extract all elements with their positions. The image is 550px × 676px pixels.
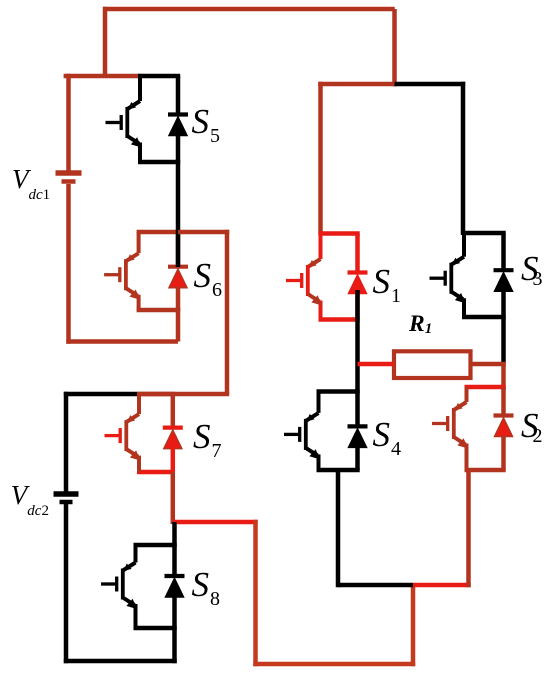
label S7 <box>193 419 222 463</box>
label S5 <box>192 104 221 148</box>
wire Vdc1 positive lead x=68.5 <box>66 74 71 171</box>
wire S8 collector link x=174.5 <box>172 522 177 546</box>
wire S7 diode leg to midpoint x=172.8 <box>171 472 176 524</box>
wire R1 right lead y=364 <box>471 362 506 367</box>
wire R1 left lead y=364 <box>358 362 395 367</box>
label Vdc2 <box>11 482 49 520</box>
wire top rail (net P) y=9 <box>103 7 395 12</box>
wire bridge1 midpoint drop x=227 <box>225 230 230 394</box>
wire Vdc1 to S6 bottom y=341.5 <box>66 339 178 344</box>
wire Vdc2 return y=661 <box>64 659 177 664</box>
IGBT switch S3: transistor + antiparallel diode <box>430 233 514 317</box>
wire S2 emitter drop x=468.5 <box>466 470 471 587</box>
battery Vdc2 <box>54 494 79 502</box>
wire S6 leg to Vdc1 return x=178 <box>176 308 181 342</box>
wire top rail right drop x=394.5 <box>392 9 397 86</box>
wire Vdc1 negative lead x=68.5 <box>66 184 71 344</box>
wire S3 collector drop x=463 <box>461 82 466 235</box>
wire Vdc2 top lead x=66 <box>64 392 69 492</box>
label S2 <box>521 408 543 448</box>
wire S6 top wire extension y=232 <box>178 230 229 235</box>
wire bridge2 midpoint y=522 <box>173 520 258 525</box>
wire S3 emitter leg x=503.5 <box>501 317 506 364</box>
label Vdc1 <box>12 166 50 204</box>
wire left drop of top rail x=105 <box>103 7 108 78</box>
wire S1 collector drop x=320.5 <box>318 82 323 236</box>
IGBT switch S8: transistor + antiparallel diode <box>101 545 185 628</box>
label S3 <box>521 251 543 291</box>
battery Vdc1 <box>56 173 82 182</box>
wire bottom bus riser x=413 <box>411 585 416 666</box>
wire bottom bus y=664 <box>253 662 415 667</box>
wire S7 top rail y=394 (red part) <box>137 392 229 397</box>
wire R1 junction to S2 x=503.5 <box>501 362 506 390</box>
IGBT switch S2: transistor + antiparallel diode <box>432 387 514 470</box>
label S4 <box>373 417 402 461</box>
label S6 <box>194 258 223 302</box>
wire H-bridge bottom left y=585 (black) <box>338 583 413 588</box>
wire H-bridge top right y=84 (black) <box>395 82 466 87</box>
wire S5 top feed y=76 <box>64 74 141 79</box>
IGBT switch S1: transistor + antiparallel diode <box>286 234 368 320</box>
wire S5 emitter to S6 diode x=178 <box>176 162 181 267</box>
wire S1/S4 midpoint leg x=357.5 <box>355 290 360 394</box>
wire midpoint to bottom bus x=255.5 <box>253 520 258 666</box>
IGBT switch S7: transistor + antiparallel diode <box>105 394 183 472</box>
label R1 <box>409 313 432 338</box>
resistor R1 (load) <box>394 351 471 378</box>
label S1 <box>373 264 402 308</box>
wire H-bridge top left y=84 (red) <box>318 82 396 87</box>
wire Vdc2 bottom lead x=66 <box>64 504 69 663</box>
label S8 <box>192 567 221 611</box>
wire S8 emitter leg x=174.5 <box>172 628 177 663</box>
wire Vdc2 positive link y=394 (black part) <box>64 392 137 397</box>
IGBT switch S6: transistor + antiparallel diode <box>104 232 188 310</box>
wire S4 emitter drop x=338 <box>336 470 341 587</box>
wire H-bridge bottom right y=585 (red) <box>413 583 471 588</box>
IGBT switch S4: transistor + antiparallel diode <box>284 392 368 471</box>
IGBT switch S5: transistor + antiparallel diode <box>106 76 189 162</box>
